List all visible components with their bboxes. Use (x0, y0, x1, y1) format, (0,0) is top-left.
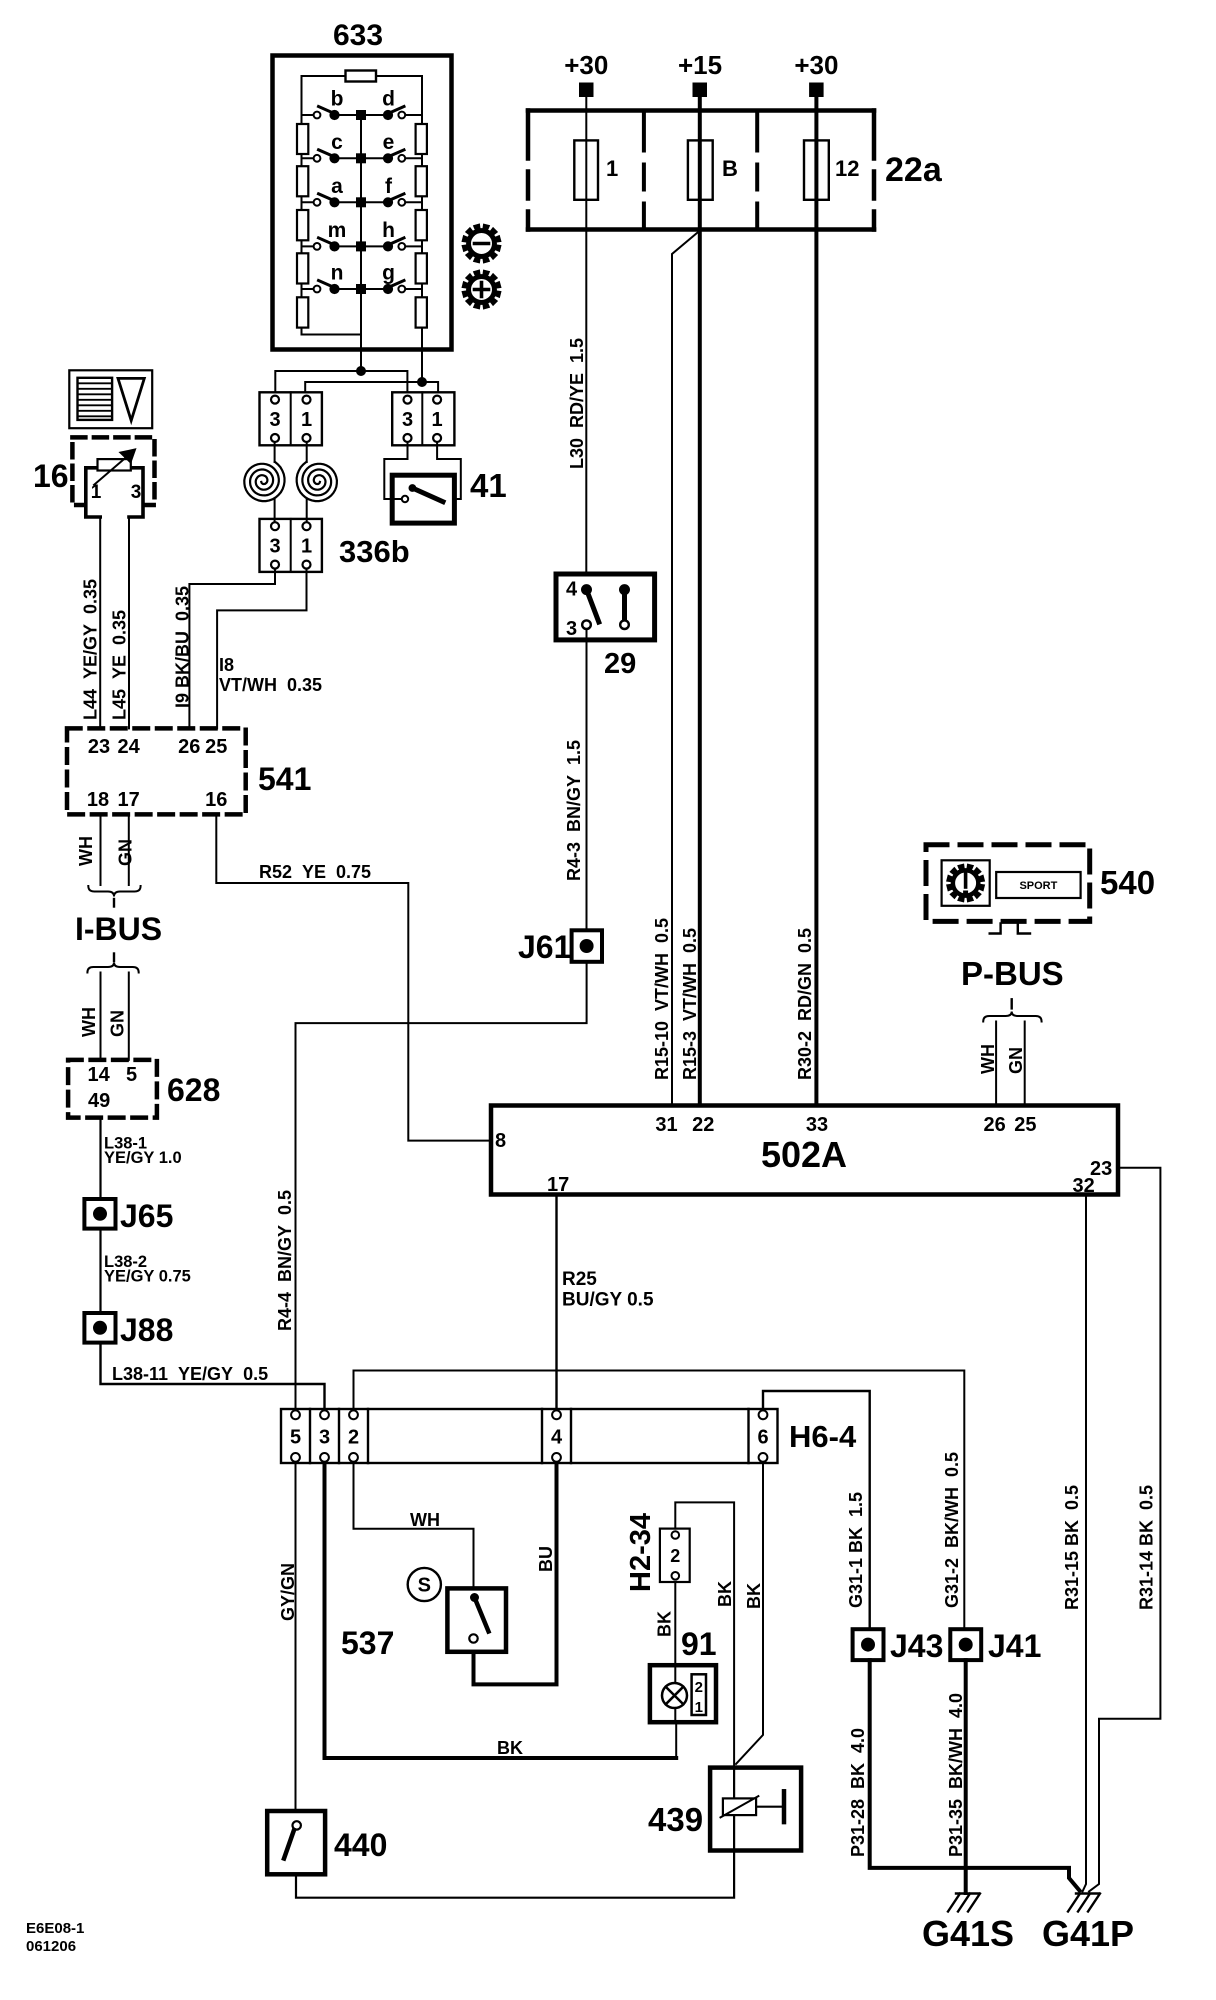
svg-text:G31-2 BK/WH 0.5: G31-2 BK/WH 0.5 (942, 1452, 962, 1608)
connector H2-34 pin 2 (660, 1529, 690, 1582)
wire L38-1 YE/GY 1.0 (99, 1118, 101, 1199)
ground G41S (948, 1894, 980, 1912)
svg-text:L44 YE/GY 0.35: L44 YE/GY 0.35 (81, 579, 101, 720)
svg-text:22a: 22a (885, 151, 943, 189)
connector unit 628 pins 14,5,49 (68, 1060, 157, 1118)
svg-text:J61: J61 (518, 929, 571, 965)
svg-text:440: 440 (334, 1827, 387, 1863)
switch 41 (392, 475, 454, 523)
wire lamp 91 to BK rail (675, 1722, 677, 1758)
power feed +30 right (794, 50, 838, 97)
svg-text:540: 540 (1100, 864, 1155, 901)
switch c in 633 (302, 131, 362, 163)
svg-text:a: a (331, 175, 343, 198)
wire L38-11 YE/GY 0.5 (101, 1343, 325, 1409)
svg-text:8: 8 (495, 1130, 506, 1152)
svg-text:YE/GY 0.75: YE/GY 0.75 (104, 1268, 191, 1286)
fuse box 22a frame (528, 111, 874, 230)
svg-text:I9 BK/BU 0.35: I9 BK/BU 0.35 (173, 586, 193, 708)
svg-text:R15-3 VT/WH 0.5: R15-3 VT/WH 0.5 (680, 928, 700, 1080)
cable reel spiral left of 336b (244, 442, 284, 522)
svg-text:L38-11 YE/GY 0.5: L38-11 YE/GY 0.5 (112, 1364, 268, 1384)
resistor right 1 in 633 (416, 124, 427, 154)
svg-text:+30: +30 (794, 50, 838, 80)
fuse B (688, 140, 738, 199)
wire I9 BK/BU 0.35 (189, 569, 275, 729)
svg-text:R52 YE 0.75: R52 YE 0.75 (259, 862, 371, 882)
junction on 633 center column row c (357, 154, 366, 163)
sensor 16 dashed boundary (72, 437, 154, 505)
wire 633 bottom rail (302, 334, 362, 336)
svg-text:2: 2 (670, 1546, 680, 1566)
sensor 16 body with pins 1,3 (86, 468, 143, 517)
gear icon minus (volume down) (463, 225, 501, 263)
svg-text:17: 17 (117, 789, 139, 811)
svg-text:S: S (418, 1575, 431, 1597)
switch d in 633 (361, 88, 422, 120)
svg-text:633: 633 (333, 19, 383, 52)
svg-text:GN: GN (1006, 1047, 1026, 1074)
svg-text:c: c (331, 131, 343, 154)
svg-text:I-BUS: I-BUS (75, 911, 162, 947)
svg-text:L45 YE 0.35: L45 YE 0.35 (110, 610, 130, 720)
junction on 633 center column row m (357, 242, 366, 251)
wire P-BUS WH to 502A pin26 (995, 1022, 997, 1106)
svg-text:3: 3 (402, 409, 413, 431)
wire H6-4 pin3 BK to lamp 91 (325, 1463, 677, 1758)
gear icon plus (volume up) (463, 271, 501, 309)
wire I8 VT/WH 0.35 (217, 569, 306, 729)
svg-text:WH: WH (978, 1044, 998, 1074)
switch 440 (267, 1811, 325, 1874)
svg-text:P-BUS: P-BUS (961, 955, 1064, 992)
ground G41P (1068, 1894, 1100, 1912)
svg-text:502A: 502A (761, 1134, 847, 1175)
junction node below 633 center (357, 367, 366, 376)
connector strip H6-4 (281, 1409, 778, 1463)
resistor left 5 in 633 (297, 297, 308, 327)
svg-text:J43: J43 (890, 1628, 943, 1664)
power feed +15 (678, 50, 722, 97)
svg-text:e: e (383, 131, 395, 154)
label L38-2 (104, 1253, 191, 1286)
wire 41 connector to switch right (437, 442, 461, 499)
svg-text:G41S: G41S (922, 1913, 1014, 1954)
brace I-BUS lower (87, 963, 138, 973)
junction J43 (853, 1629, 884, 1660)
wire H2-34 to lamp 91 BK (674, 1582, 676, 1665)
svg-text:b: b (331, 88, 344, 111)
wire 633 left column (301, 76, 303, 335)
bus continuation dash lower (113, 954, 115, 962)
wire branch R15-10 to 502A pin31 (672, 230, 701, 1106)
wire H6-4 pin2 to J41 line (354, 1371, 965, 1630)
wire 633 center column (360, 115, 362, 345)
wire I-BUS GN to 628 (128, 973, 130, 1060)
brace P-BUS (983, 1012, 1041, 1022)
svg-text:12: 12 (835, 156, 859, 181)
resistor left 3 in 633 (297, 210, 308, 240)
svg-text:+15: +15 (678, 50, 722, 80)
bus continuation dash upper (113, 899, 115, 907)
svg-text:1: 1 (91, 482, 102, 503)
svg-text:31: 31 (655, 1114, 677, 1136)
wire P-BUS GN to 502A pin25 (1024, 1022, 1026, 1106)
svg-text:d: d (382, 88, 395, 111)
svg-text:3: 3 (319, 1427, 330, 1449)
svg-text:5: 5 (126, 1064, 137, 1086)
junction node below 633 right (418, 378, 427, 387)
svg-text:26: 26 (983, 1114, 1005, 1136)
svg-text:YE/GY 1.0: YE/GY 1.0 (104, 1149, 182, 1167)
svg-text:25: 25 (205, 736, 227, 758)
switch e in 633 (361, 131, 422, 163)
junction J88 (84, 1313, 115, 1343)
resistor left 4 in 633 (297, 253, 308, 283)
junction on 633 center column row n (357, 285, 366, 294)
drawing number E6E08-1 (26, 1920, 84, 1955)
wire H6-4 pin4 BU to 537 return (474, 1463, 557, 1684)
svg-text:32: 32 (1073, 1175, 1095, 1197)
svg-text:3: 3 (269, 409, 280, 431)
label L38-1 (104, 1135, 182, 1168)
svg-text:537: 537 (341, 1625, 394, 1661)
wire +15 through fuse B to 502A pin22 (698, 97, 702, 1106)
control unit 502A (491, 1106, 1118, 1198)
540 pin hooks (990, 923, 1030, 933)
svg-text:BK: BK (715, 1581, 735, 1607)
junction J61 (572, 930, 602, 962)
svg-text:L30 RD/YE 1.5: L30 RD/YE 1.5 (567, 338, 587, 469)
wire 633 right column to connectors (305, 345, 438, 392)
svg-text:22: 22 (692, 1114, 714, 1136)
wire I-BUS WH to 628 (100, 973, 102, 1060)
switch g in 633 (361, 262, 422, 294)
wire 41 connector to switch left (384, 442, 407, 499)
svg-text:29: 29 (604, 648, 636, 680)
label I8 (219, 655, 322, 695)
svg-text:17: 17 (547, 1174, 569, 1196)
svg-text:B: B (722, 156, 738, 181)
svg-text:14: 14 (88, 1064, 111, 1086)
wire +30 through fuse 1 (585, 97, 587, 590)
svg-text:41: 41 (470, 467, 507, 504)
keypad module 633 (273, 19, 452, 350)
svg-text:91: 91 (681, 1626, 717, 1662)
svg-text:4: 4 (551, 1427, 563, 1449)
switch 537 with S symbol (408, 1568, 506, 1652)
svg-text:6: 6 (757, 1427, 768, 1449)
wire 633 center column to connectors (275, 345, 407, 392)
svg-text:WH: WH (79, 1007, 99, 1037)
junction J65 (84, 1199, 115, 1229)
svg-text:P31-35 BK/WH 4.0: P31-35 BK/WH 4.0 (946, 1693, 966, 1857)
svg-text:R25: R25 (562, 1269, 597, 1290)
svg-text:g: g (382, 262, 395, 285)
wire 541 pin18 WH (100, 814, 102, 885)
svg-text:J88: J88 (120, 1312, 173, 1348)
svg-text:2: 2 (695, 1679, 703, 1696)
lamp 91 (650, 1665, 716, 1722)
svg-text:H6-4: H6-4 (789, 1419, 857, 1454)
svg-text:WH: WH (410, 1510, 440, 1530)
wire 541 pin17 GN (128, 814, 130, 885)
svg-text:P31-28 BK 4.0: P31-28 BK 4.0 (848, 1728, 868, 1857)
wire L44 YE/GY 0.35 (99, 517, 101, 728)
wire L38-2 YE/GY 0.75 (99, 1229, 101, 1313)
svg-text:R31-15 BK 0.5: R31-15 BK 0.5 (1062, 1485, 1082, 1610)
svg-text:18: 18 (87, 789, 109, 811)
svg-text:BU/GY 0.5: BU/GY 0.5 (562, 1290, 654, 1311)
wire J61 to H6-4 pin5 (R4-4 BN/GY 0.5) (296, 962, 587, 1409)
svg-text:+30: +30 (564, 50, 608, 80)
svg-text:1: 1 (695, 1699, 703, 1716)
control unit 541 (67, 728, 246, 814)
svg-text:BK: BK (655, 1611, 675, 1637)
svg-text:4: 4 (566, 579, 578, 601)
svg-text:628: 628 (167, 1072, 220, 1108)
switch 29 (556, 574, 655, 640)
svg-text:GN: GN (108, 1010, 128, 1037)
connector 336b upper pins 3,1 (260, 392, 322, 445)
svg-text:3: 3 (566, 618, 577, 640)
svg-text:2: 2 (348, 1427, 359, 1449)
power feed +30 left (564, 50, 608, 97)
svg-text:3: 3 (131, 482, 142, 503)
svg-text:1: 1 (432, 409, 443, 431)
resistor top of 633 (346, 71, 377, 82)
resistor right 4 in 633 (416, 253, 427, 283)
bus continuation dash P-BUS (1011, 999, 1013, 1008)
svg-text:E6E08-1: E6E08-1 (26, 1920, 84, 1937)
svg-text:1: 1 (301, 409, 312, 431)
junction J41 (950, 1629, 981, 1660)
svg-text:5: 5 (290, 1427, 301, 1449)
svg-text:J65: J65 (120, 1198, 173, 1234)
wire 502A pin17 R25 BU/GY 0.5 (555, 1195, 557, 1410)
svg-text:R4-3 BN/GY 1.5: R4-3 BN/GY 1.5 (564, 740, 584, 881)
switch m in 633 (302, 219, 362, 251)
svg-text:H2-34: H2-34 (625, 1513, 657, 1592)
svg-text:1: 1 (606, 156, 618, 181)
wire J43 P31-28 BK 4.0 to ground rail (870, 1660, 1080, 1890)
svg-text:GY/GN: GY/GN (278, 1563, 298, 1621)
svg-text:f: f (385, 175, 393, 198)
wire 633 top rail (302, 75, 423, 77)
svg-text:R15-10 VT/WH 0.5: R15-10 VT/WH 0.5 (652, 918, 672, 1080)
wire H6-4 pin5 GY/GN to 440 (295, 1463, 297, 1811)
svg-text:I8: I8 (219, 655, 234, 675)
wire 633 right column (421, 76, 423, 345)
svg-text:1: 1 (301, 536, 312, 558)
svg-text:BK: BK (744, 1583, 764, 1609)
gear warning icon in 540 (942, 860, 990, 906)
svg-text:25: 25 (1014, 1114, 1036, 1136)
SPORT button in 540 (996, 872, 1080, 898)
wire J41 P31-35 BK/WH 4.0 to G41S (964, 1660, 968, 1893)
svg-text:R30-2 RD/GN 0.5: R30-2 RD/GN 0.5 (795, 928, 815, 1080)
switch n in 633 (302, 262, 362, 294)
svg-text:061206: 061206 (26, 1938, 76, 1955)
svg-text:439: 439 (648, 1801, 703, 1838)
switch h in 633 (361, 219, 422, 251)
svg-text:BK: BK (497, 1738, 523, 1758)
svg-text:n: n (331, 262, 344, 285)
relay valve 439 (710, 1768, 801, 1851)
wire 502A pin32 R31-15 BK 0.5 to G41P (1083, 1195, 1087, 1892)
resistor left 1 in 633 (297, 124, 308, 154)
junction on 633 center column row a (357, 198, 366, 207)
svg-text:24: 24 (117, 736, 140, 758)
connector 336b lower pins 3,1 (260, 519, 322, 572)
wire +30 through fuse 12 to 502A pin33 (814, 97, 818, 1106)
potentiometer inside 16 (94, 450, 135, 485)
svg-text:336b: 336b (339, 534, 410, 569)
climate icon above 16 (69, 370, 152, 428)
junction on 633 center column row b (357, 111, 366, 120)
svg-text:m: m (328, 219, 347, 242)
wire 440 to 439 bottom rail (296, 1851, 734, 1898)
svg-text:26: 26 (178, 736, 200, 758)
switch a in 633 (302, 175, 362, 207)
svg-text:VT/WH 0.35: VT/WH 0.35 (219, 675, 322, 695)
svg-text:GN: GN (116, 839, 136, 866)
cable reel spiral right of 336b (297, 442, 337, 522)
svg-text:16: 16 (33, 458, 69, 494)
resistor right 5 in 633 (416, 297, 427, 327)
svg-text:23: 23 (88, 736, 110, 758)
svg-text:SPORT: SPORT (1019, 880, 1057, 892)
svg-text:BU: BU (536, 1546, 556, 1572)
resistor right 2 in 633 (416, 166, 427, 196)
wire 502A pin23 R31-14 BK 0.5 to G41P (1089, 1168, 1160, 1892)
svg-text:R31-14 BK 0.5: R31-14 BK 0.5 (1137, 1485, 1157, 1610)
wire L45 YE 0.35 (128, 517, 130, 728)
connector 41 pins 3,1 (392, 392, 454, 445)
wire R4-3 BN/GY 1.5 switch 29 to J61 (586, 629, 588, 930)
svg-text:G41P: G41P (1042, 1913, 1134, 1954)
svg-text:WH: WH (76, 836, 96, 866)
resistor left 2 in 633 (297, 166, 308, 196)
switch module 540 dashed boundary (926, 845, 1090, 922)
fuse 12 (804, 140, 859, 199)
svg-text:R4-4 BN/GY 0.5: R4-4 BN/GY 0.5 (275, 1190, 295, 1331)
wire H6-4 pin6 to J43 line (763, 1391, 870, 1629)
label R25 (562, 1269, 654, 1311)
svg-text:J41: J41 (988, 1628, 1041, 1664)
brace I-BUS upper (88, 886, 140, 897)
wire R52 YE 0.75 from 541 pin16 to 502A pin8 (216, 814, 491, 1140)
resistor right 3 in 633 (416, 210, 427, 240)
wire H2-34 to 439 coil (675, 1502, 734, 1767)
switch b in 633 (302, 88, 362, 120)
wire H6-4 pin2 WH to 537 (354, 1463, 474, 1588)
svg-text:3: 3 (269, 536, 280, 558)
svg-text:h: h (382, 219, 395, 242)
wire H6-4 pin6 BK diagonal to 439 (736, 1463, 763, 1764)
svg-text:541: 541 (258, 761, 311, 797)
svg-text:16: 16 (205, 789, 227, 811)
switch f in 633 (361, 175, 422, 207)
svg-text:33: 33 (806, 1114, 828, 1136)
svg-text:G31-1 BK 1.5: G31-1 BK 1.5 (846, 1492, 866, 1608)
svg-text:49: 49 (88, 1090, 110, 1112)
fuse 1 (574, 140, 618, 199)
